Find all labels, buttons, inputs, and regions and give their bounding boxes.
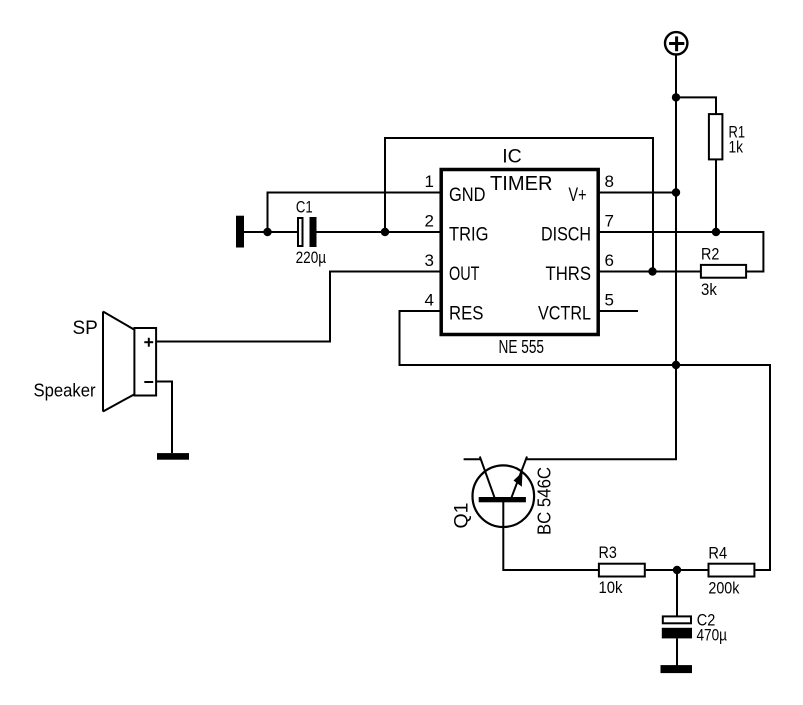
- svg-text:1: 1: [425, 172, 434, 191]
- svg-text:C1: C1: [296, 198, 313, 216]
- wire pin7 DISCH to R2 right: [598, 232, 763, 272]
- node junction pin2 top-link: [381, 228, 389, 236]
- wire pin1 GND: [268, 193, 442, 233]
- wire power vertical: [675, 54, 677, 366]
- wire collector stub: [464, 458, 481, 460]
- wire top link pin2 to pin6: [385, 138, 653, 272]
- svg-text:TIMER: TIMER: [490, 173, 553, 195]
- node junction pin1 pin2: [263, 228, 271, 236]
- node junction pin6 top-link: [648, 267, 656, 275]
- ground C2: [661, 665, 693, 673]
- svg-text:Q1: Q1: [451, 502, 473, 528]
- wire pin6 THRS to R2 left: [598, 271, 700, 273]
- transistor Q1: [451, 457, 555, 536]
- resistor R4: [708, 544, 754, 597]
- svg-text:7: 7: [605, 212, 614, 231]
- svg-text:IC: IC: [502, 146, 522, 168]
- wire pin8 V+: [598, 192, 676, 194]
- wire C1 to pin2 TRIG: [317, 231, 442, 233]
- wire branch to R1: [676, 97, 716, 114]
- node junction R3 R4 C2: [673, 566, 681, 574]
- ground speaker: [157, 453, 189, 460]
- svg-text:3k: 3k: [701, 281, 717, 299]
- svg-text:R3: R3: [599, 544, 617, 562]
- svg-text:3: 3: [425, 251, 434, 270]
- wire R3 to R4: [646, 569, 709, 571]
- svg-text:NE 555: NE 555: [499, 336, 545, 357]
- svg-text:2: 2: [425, 212, 434, 231]
- capacitor C1: [296, 198, 327, 267]
- svg-text:4: 4: [425, 291, 434, 310]
- svg-text:5: 5: [605, 291, 614, 310]
- svg-text:TRIG: TRIG: [449, 224, 489, 245]
- capacitor C2: [662, 612, 728, 645]
- wire node to C2: [676, 570, 678, 616]
- svg-text:RES: RES: [449, 303, 484, 324]
- svg-text:THRS: THRS: [546, 264, 592, 285]
- svg-text:V+: V+: [569, 185, 587, 206]
- resistor R2: [701, 245, 746, 299]
- svg-text:10k: 10k: [599, 579, 624, 597]
- node junction power R1: [672, 93, 680, 101]
- speaker SP: [34, 312, 157, 412]
- wire R1 bottom: [715, 160, 717, 232]
- svg-text:6: 6: [605, 251, 614, 270]
- svg-text:R4: R4: [708, 544, 727, 562]
- IC U1 NE555 box: [441, 146, 598, 358]
- terminal bar: [236, 216, 244, 248]
- resistor R1: [709, 114, 745, 159]
- svg-text:GND: GND: [449, 185, 486, 206]
- svg-text:220µ: 220µ: [296, 249, 327, 267]
- wire pin5 VCTRL stub: [598, 310, 638, 312]
- node junction RES power R4: [672, 361, 680, 369]
- power supply terminal V+: [665, 32, 687, 54]
- svg-text:Speaker: Speaker: [34, 381, 96, 401]
- node junction R1 pin7: [712, 228, 720, 236]
- svg-text:470µ: 470µ: [697, 627, 728, 645]
- resistor R3: [599, 544, 645, 597]
- wire terminal to C1: [244, 231, 298, 233]
- svg-text:DISCH: DISCH: [541, 224, 591, 245]
- svg-text:VCTRL: VCTRL: [538, 303, 591, 324]
- svg-text:BC 546C: BC 546C: [535, 467, 555, 535]
- wire C2 to ground: [676, 638, 678, 665]
- svg-text:200k: 200k: [708, 579, 740, 597]
- svg-text:OUT: OUT: [449, 264, 480, 285]
- wire speaker minus to ground: [157, 382, 172, 454]
- wire pin4 RES to node and down to R4: [400, 311, 771, 570]
- node junction pin8 power: [672, 188, 680, 196]
- wire pin3 OUT to speaker: [157, 272, 441, 342]
- wire base to R3: [503, 502, 598, 570]
- svg-text:8: 8: [605, 172, 614, 191]
- svg-text:R2: R2: [701, 245, 719, 263]
- svg-text:1k: 1k: [729, 138, 744, 156]
- svg-text:SP: SP: [73, 318, 98, 339]
- wire node to transistor emitter: [527, 365, 676, 459]
